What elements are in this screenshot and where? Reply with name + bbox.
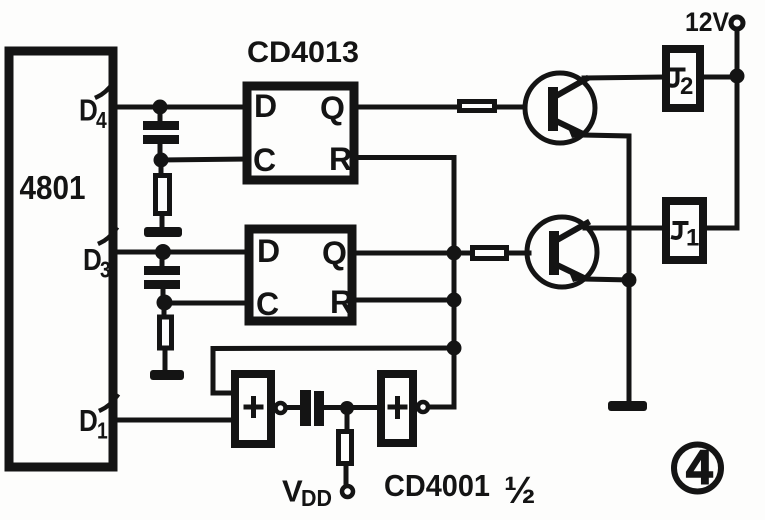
wire R5 to VDD terminal (344, 466, 349, 484)
svg-text:V: V (282, 474, 303, 509)
wire node A to FF1 C input (161, 159, 247, 160)
figure number 4 circle (674, 445, 721, 492)
U2b pin R (330, 284, 353, 320)
U2a pin D (254, 88, 277, 124)
transistor Q2 emitter stroke (556, 121, 581, 133)
gate U3a body (235, 374, 271, 444)
svg-text:Q: Q (320, 90, 345, 126)
svg-text:C: C (253, 142, 276, 178)
wire D4 to FF1 D input (112, 105, 247, 110)
junction node D3 (155, 244, 171, 260)
wire U2b Q to resistor R4 (352, 251, 470, 256)
capacitor C1 (143, 121, 179, 144)
wire D1 to gate U3a input (116, 418, 233, 423)
pin tick D4 (97, 83, 113, 97)
U2b pin D (257, 233, 280, 269)
junction bus / oscillator feedback (447, 341, 462, 356)
resistor R4 (473, 248, 507, 259)
transistor Q2 collector stroke (556, 79, 586, 96)
wire junction D4 to capacitor C1 (158, 107, 163, 121)
junction bus / R of U2b (447, 293, 462, 308)
junction node B (157, 295, 173, 311)
svg-text:Q: Q (322, 235, 347, 271)
svg-text:D: D (79, 404, 98, 439)
transistor Q2 emitter arrow (566, 123, 583, 138)
label 12V (685, 7, 729, 37)
wire bus to gate U3b output (429, 348, 454, 407)
relay J1 label (673, 223, 699, 252)
label CD4001 1/2 (384, 468, 536, 512)
capacitor C3 (300, 390, 324, 426)
wire C1 to node A (158, 144, 163, 160)
terminal 12V (731, 17, 743, 29)
svg-text:1: 1 (97, 419, 108, 444)
label CD4013 (247, 36, 359, 69)
junction Q1 emitter / ground rail (622, 273, 637, 288)
wire R2 to ground bar (163, 351, 168, 371)
wire Q2 emitter to ground rail (584, 135, 629, 402)
wire R3 to Q2 base (497, 105, 525, 110)
pin label D1 (79, 404, 108, 444)
U2a pin C (253, 142, 276, 178)
junction node A (154, 153, 169, 168)
resistor R5 (339, 432, 352, 464)
wire Q1 collector to relay J1 (585, 226, 662, 231)
label VDD (282, 474, 332, 512)
wire node B to FF2 C input (164, 301, 249, 306)
wire U2a Q to resistor R3 (354, 105, 457, 110)
U2a pin R (329, 141, 352, 177)
svg-text:4: 4 (686, 442, 713, 495)
svg-text:D: D (257, 233, 280, 269)
junction node D4 (153, 100, 168, 115)
transistor Q1 emitter stroke (557, 265, 582, 277)
wire J1 to 12V rail (703, 30, 737, 228)
wire node B to resistor R2 (162, 303, 167, 315)
svg-text:C: C (256, 286, 279, 322)
svg-text:3: 3 (100, 258, 111, 283)
wire U2a R to bus (354, 158, 454, 254)
wire C3 to node C (324, 405, 379, 410)
transistor Q1 base bar (549, 231, 559, 275)
pin label D3 (83, 243, 111, 283)
svg-text:1: 1 (686, 225, 699, 252)
transistor Q2 base bar (548, 87, 558, 131)
wire R4 to Q1 base (509, 251, 529, 256)
wire R1 to ground bar (160, 216, 165, 228)
svg-text:D: D (254, 88, 277, 124)
capacitor C2 (144, 266, 180, 289)
ground symbol (608, 401, 647, 411)
junction J2 / 12V rail (730, 69, 745, 84)
ground bar (R2) (150, 370, 184, 380)
wire Q2 collector to relay J2 (584, 77, 662, 78)
wire junction D3 to capacitor C2 (160, 252, 165, 266)
transistor Q1 emitter arrow (567, 267, 584, 282)
svg-text:4: 4 (96, 109, 107, 134)
svg-text:DD: DD (301, 485, 332, 511)
IC U1 label 4801 (20, 169, 86, 206)
U2b pin Q (322, 235, 347, 271)
gate U3a plus symbol (244, 396, 264, 418)
svg-text:D: D (83, 243, 102, 278)
wire D3 to FF2 D input (112, 250, 249, 255)
junction node C (340, 401, 354, 415)
gate U3b body (381, 374, 413, 443)
U2b pin C (256, 286, 279, 322)
relay J2 label (671, 70, 694, 101)
svg-text:2: 2 (680, 73, 693, 100)
transistor Q1 body circle (527, 217, 597, 287)
wire Q1 emitter to ground rail (585, 279, 629, 280)
ground bar (R1) (144, 227, 182, 237)
gate U3b output bubble (418, 402, 428, 412)
wire J2 to 12V rail (700, 75, 737, 80)
flip-flop U2b body (249, 229, 352, 321)
svg-text:D: D (79, 93, 98, 128)
pin tick D1 (101, 396, 117, 410)
resistor R2 (160, 317, 172, 348)
transistor Q2 body circle (525, 73, 595, 143)
wire oscillator feedback line (213, 348, 454, 393)
relay J1 body (666, 201, 703, 260)
gate U3b plus symbol (388, 396, 408, 419)
pin tick D3 (100, 229, 116, 243)
junction bus / Q of U2b (447, 246, 462, 261)
svg-text:4801: 4801 (20, 169, 86, 206)
wire bus segment to R node (452, 253, 457, 300)
wire U2b R to bus (352, 298, 455, 303)
pin label D4 (79, 93, 107, 133)
transistor Q1 collector stroke (557, 223, 587, 240)
wire C2 to node B (161, 289, 166, 303)
svg-text:½: ½ (504, 470, 536, 512)
resistor R1 (156, 176, 170, 214)
wire node A to resistor R1 (159, 160, 164, 173)
terminal VDD (342, 486, 353, 497)
svg-text:CD4001: CD4001 (384, 468, 490, 503)
wire U3a output to capacitor C3 (287, 405, 301, 410)
wire bus segment to oscillator node (452, 300, 457, 348)
wire node C to resistor R5 (345, 408, 350, 431)
resistor R3 (460, 102, 495, 111)
flip-flop U2a body (247, 86, 354, 180)
figure number 4 digit (686, 442, 713, 495)
svg-text:12V: 12V (685, 7, 729, 37)
svg-text:R: R (329, 141, 352, 177)
IC U1 4801 body (9, 51, 113, 467)
gate U3a output bubble (276, 403, 286, 413)
svg-text:CD4013: CD4013 (247, 36, 359, 69)
U2a pin Q (320, 90, 345, 126)
relay J2 body (666, 49, 700, 108)
